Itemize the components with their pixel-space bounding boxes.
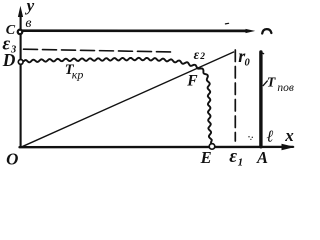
svg-text:D: D: [2, 50, 16, 70]
svg-text:O: O: [6, 150, 18, 169]
arrowhead at right end of line a: [246, 29, 256, 33]
wavy curve T_kr from D to E: [23, 58, 212, 144]
svg-text:Т: Т: [267, 76, 277, 91]
top serif of T_pov line: [262, 52, 264, 55]
x-axis arrowhead: [282, 144, 296, 151]
svg-text:в: в: [25, 16, 31, 31]
y-axis arrowhead: [18, 6, 23, 17]
point C (circle): [18, 30, 23, 35]
svg-text:ε: ε: [229, 146, 237, 167]
leader tick of T_pov label: [263, 81, 267, 86]
glyph a (arc) right of line a: [262, 29, 271, 33]
svg-text:y: y: [25, 0, 35, 15]
dashed line at epsilon3 level: [24, 49, 174, 52]
y-axis: [20, 14, 22, 147]
specks near A: [248, 136, 249, 137]
point D (circle): [18, 60, 23, 65]
svg-text:F: F: [186, 73, 198, 90]
thick vertical line at A (T_pov): [259, 52, 262, 147]
x-axis: [20, 146, 294, 149]
line a (thick horizontal line from C): [22, 29, 246, 32]
svg-text:пов: пов: [277, 82, 294, 94]
svg-text:0: 0: [245, 57, 251, 68]
speck above line a: [225, 22, 228, 25]
svg-text:ℓ: ℓ: [267, 126, 274, 145]
svg-text:2: 2: [199, 52, 205, 62]
svg-text:x: x: [284, 126, 294, 145]
svg-text:1: 1: [238, 156, 244, 168]
dashed vertical line at epsilon1: [234, 50, 236, 141]
svg-text:кр: кр: [72, 67, 84, 81]
svg-text:A: A: [256, 148, 268, 167]
point E (circle): [209, 144, 215, 150]
diagonal line O to r0: [22, 52, 234, 147]
svg-text:E: E: [200, 148, 212, 167]
svg-text:ε: ε: [194, 47, 200, 62]
